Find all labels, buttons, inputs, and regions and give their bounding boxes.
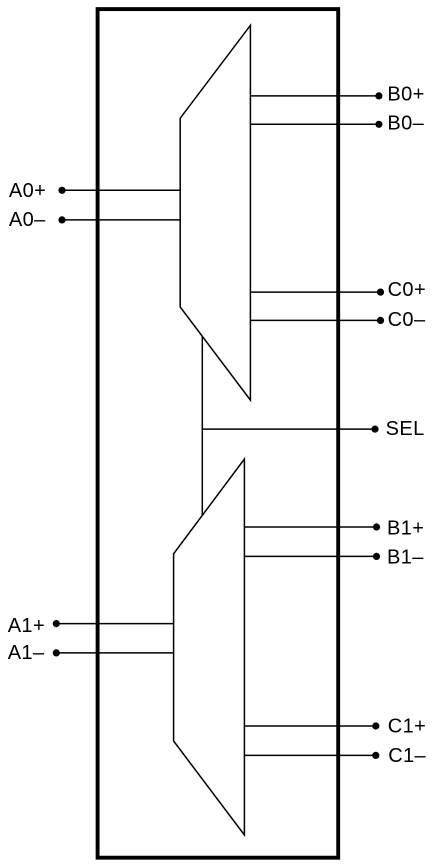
pin C1- — [244, 745, 426, 767]
svg-text:B1+: B1+ — [387, 518, 424, 540]
svg-text:B0+: B0+ — [387, 83, 424, 105]
svg-text:A0–: A0– — [9, 209, 46, 231]
pin B0+ — [250, 83, 424, 105]
mux U2 (bottom 2:1 multiplexer trapezoid) — [174, 459, 245, 835]
mux U1 (top 2:1 multiplexer trapezoid) — [180, 25, 250, 400]
pin A1+ — [8, 615, 174, 637]
svg-text:C0+: C0+ — [388, 279, 426, 301]
IC package outline — [98, 9, 339, 858]
svg-text:B1–: B1– — [387, 547, 424, 569]
pin A0+ — [9, 180, 180, 202]
svg-text:C1–: C1– — [388, 745, 426, 767]
pin C0- — [250, 309, 426, 331]
wire SEL vertical net between mux select edges — [201, 337, 203, 516]
svg-text:C0–: C0– — [388, 309, 426, 331]
pin C1+ — [244, 716, 426, 738]
svg-text:C1+: C1+ — [388, 716, 426, 738]
svg-text:SEL: SEL — [386, 418, 425, 440]
svg-text:A1–: A1– — [8, 642, 45, 664]
svg-text:A1+: A1+ — [8, 615, 45, 637]
pin A0- — [9, 209, 180, 231]
pin B1+ — [244, 518, 424, 540]
svg-text:B0–: B0– — [387, 112, 424, 134]
pin B0- — [250, 112, 424, 134]
pin C0+ — [250, 279, 426, 301]
pin B1- — [244, 547, 424, 569]
pin A1- — [8, 642, 174, 664]
svg-text:A0+: A0+ — [9, 180, 46, 202]
pin SEL — [202, 418, 424, 440]
